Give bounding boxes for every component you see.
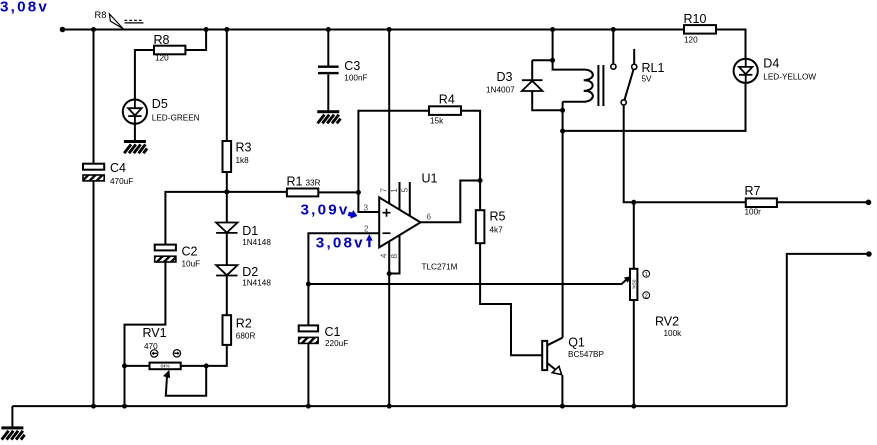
svg-text:D5: D5 <box>152 97 168 111</box>
svg-text:15k: 15k <box>430 117 444 126</box>
svg-text:R5: R5 <box>490 210 506 224</box>
svg-text:1N4148: 1N4148 <box>242 238 271 247</box>
svg-text:RV2: RV2 <box>655 315 679 329</box>
svg-text:8: 8 <box>390 253 399 258</box>
svg-text:3,09v: 3,09v <box>301 201 350 218</box>
svg-text:1k8: 1k8 <box>236 156 250 165</box>
svg-text:3: 3 <box>364 204 369 213</box>
svg-text:1: 1 <box>645 272 648 278</box>
svg-text:R4: R4 <box>439 93 455 107</box>
svg-text:33R: 33R <box>306 179 321 188</box>
svg-text:680R: 680R <box>236 332 256 341</box>
svg-text:100nF: 100nF <box>344 74 367 83</box>
svg-text:64%: 64% <box>160 364 169 369</box>
svg-text:470: 470 <box>144 342 158 351</box>
svg-text:D3: D3 <box>497 70 513 84</box>
svg-text:LED-YELLOW: LED-YELLOW <box>763 72 816 81</box>
svg-text:120: 120 <box>684 36 698 45</box>
svg-text:100r: 100r <box>745 208 762 217</box>
svg-text:470uF: 470uF <box>110 177 133 186</box>
svg-text:D4: D4 <box>763 57 779 71</box>
svg-text:D2: D2 <box>242 265 258 279</box>
svg-text:7: 7 <box>379 188 388 193</box>
svg-text:%50: %50 <box>631 279 636 289</box>
svg-text:U1: U1 <box>422 172 438 186</box>
svg-text:C1: C1 <box>325 325 341 339</box>
svg-text:C2: C2 <box>182 245 198 259</box>
svg-text:10uF: 10uF <box>182 260 201 269</box>
svg-text:R1: R1 <box>287 175 303 189</box>
svg-text:R2: R2 <box>236 317 252 331</box>
svg-text:Q1: Q1 <box>568 335 585 349</box>
svg-text:1N4007: 1N4007 <box>486 86 515 95</box>
svg-text:1N4148: 1N4148 <box>242 278 271 287</box>
svg-text:RV1: RV1 <box>143 326 167 340</box>
svg-text:2: 2 <box>645 293 648 299</box>
svg-text:5V: 5V <box>642 75 653 84</box>
svg-text:4k7: 4k7 <box>490 226 504 235</box>
svg-text:2: 2 <box>364 225 369 234</box>
svg-text:R8: R8 <box>95 10 107 20</box>
svg-text:100k: 100k <box>664 329 683 338</box>
svg-text:RL1: RL1 <box>642 61 665 75</box>
svg-text:3,08v: 3,08v <box>316 235 365 252</box>
svg-text:D1: D1 <box>242 224 258 238</box>
svg-text:R3: R3 <box>236 141 252 155</box>
svg-text:4: 4 <box>380 253 389 258</box>
svg-text:1: 1 <box>390 188 399 193</box>
svg-text:TLC271M: TLC271M <box>422 263 458 272</box>
svg-text:6: 6 <box>427 213 432 222</box>
svg-text:R7: R7 <box>745 184 761 198</box>
svg-text:R8: R8 <box>154 33 170 47</box>
svg-text:120: 120 <box>155 53 169 62</box>
svg-text:5: 5 <box>400 187 409 192</box>
svg-text:C4: C4 <box>110 161 126 175</box>
svg-text:LED-GREEN: LED-GREEN <box>152 113 200 122</box>
svg-text:3,08v: 3,08v <box>0 0 49 15</box>
svg-text:C3: C3 <box>344 59 360 73</box>
svg-text:R10: R10 <box>684 12 707 26</box>
svg-text:220uF: 220uF <box>325 339 348 348</box>
svg-text:BC547BP: BC547BP <box>568 350 604 359</box>
